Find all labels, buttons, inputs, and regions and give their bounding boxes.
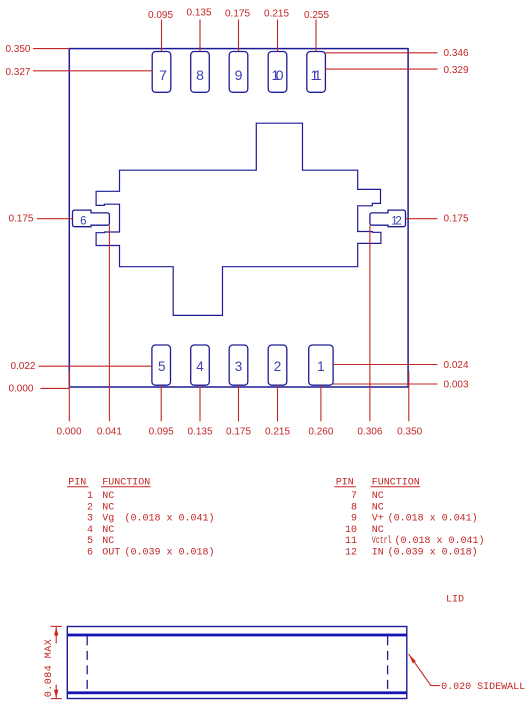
svg-text:0.175: 0.175 (226, 426, 251, 437)
svg-text:NC: NC (102, 536, 114, 547)
svg-text:0.260: 0.260 (308, 426, 333, 437)
svg-text:9: 9 (235, 67, 243, 83)
svg-text:0.135: 0.135 (187, 426, 212, 437)
svg-text:LID: LID (446, 594, 464, 605)
svg-text:4: 4 (196, 359, 204, 374)
svg-text:0.175: 0.175 (225, 8, 250, 19)
svg-text:Vg: Vg (102, 514, 114, 525)
svg-text:1: 1 (317, 359, 325, 374)
svg-text:12: 12 (391, 216, 402, 228)
svg-text:(0.039 x 0.018): (0.039 x 0.018) (388, 547, 478, 559)
svg-text:0.000: 0.000 (8, 383, 33, 394)
svg-text:8: 8 (196, 67, 204, 83)
svg-text:0.215: 0.215 (264, 8, 289, 19)
svg-text:0.084 MAX: 0.084 MAX (44, 639, 55, 697)
svg-text:10: 10 (272, 67, 284, 83)
svg-text:(0.018 x 0.041): (0.018 x 0.041) (395, 535, 485, 547)
svg-text:0.350: 0.350 (397, 426, 422, 437)
svg-text:5: 5 (87, 536, 93, 547)
svg-text:5: 5 (158, 359, 166, 374)
svg-text:9: 9 (351, 514, 357, 525)
svg-text:0.327: 0.327 (5, 67, 30, 78)
svg-text:0.135: 0.135 (186, 8, 211, 19)
svg-text:6: 6 (87, 548, 93, 559)
svg-text:1: 1 (87, 491, 93, 502)
svg-text:0.346: 0.346 (444, 48, 469, 59)
svg-text:10: 10 (345, 525, 357, 536)
svg-text:NC: NC (372, 525, 384, 536)
svg-text:8: 8 (351, 502, 357, 513)
svg-text:0.041: 0.041 (97, 426, 122, 437)
svg-text:NC: NC (102, 491, 114, 502)
svg-text:4: 4 (87, 525, 93, 536)
svg-text:0.306: 0.306 (357, 426, 382, 437)
svg-text:2: 2 (87, 502, 93, 513)
svg-text:IN: IN (372, 548, 384, 559)
svg-text:0.255: 0.255 (304, 10, 329, 21)
svg-text:0.095: 0.095 (148, 10, 173, 21)
svg-text:0.329: 0.329 (444, 65, 469, 76)
svg-text:0.000: 0.000 (56, 426, 81, 437)
svg-text:NC: NC (372, 502, 384, 513)
svg-text:0.215: 0.215 (265, 426, 290, 437)
svg-text:0.175: 0.175 (8, 214, 33, 225)
svg-text:11: 11 (345, 536, 357, 547)
svg-text:3: 3 (235, 359, 243, 374)
svg-text:12: 12 (345, 548, 357, 559)
svg-text:Vctrl: Vctrl (372, 535, 392, 547)
svg-text:11: 11 (311, 67, 322, 83)
svg-text:0.350: 0.350 (5, 44, 30, 55)
svg-text:0.024: 0.024 (444, 360, 469, 371)
svg-text:NC: NC (102, 502, 114, 513)
svg-text:7: 7 (351, 491, 357, 502)
svg-text:3: 3 (87, 514, 93, 525)
svg-text:NC: NC (102, 525, 114, 536)
svg-text:0.022: 0.022 (10, 361, 35, 372)
svg-text:(0.018 x 0.041): (0.018 x 0.041) (388, 513, 478, 525)
svg-text:7: 7 (159, 67, 167, 83)
svg-text:0.020 SIDEWALL: 0.020 SIDEWALL (441, 682, 525, 693)
svg-text:6: 6 (80, 216, 86, 228)
svg-text:NC: NC (372, 491, 384, 502)
svg-text:0.175: 0.175 (444, 214, 469, 225)
svg-text:(0.039 x 0.018): (0.039 x 0.018) (125, 547, 215, 559)
svg-text:OUT: OUT (102, 548, 120, 559)
svg-text:0.003: 0.003 (444, 379, 469, 390)
svg-text:V+: V+ (372, 514, 384, 525)
svg-text:2: 2 (274, 359, 282, 374)
svg-text:(0.018 x 0.041): (0.018 x 0.041) (125, 513, 215, 525)
svg-text:0.095: 0.095 (149, 426, 174, 437)
